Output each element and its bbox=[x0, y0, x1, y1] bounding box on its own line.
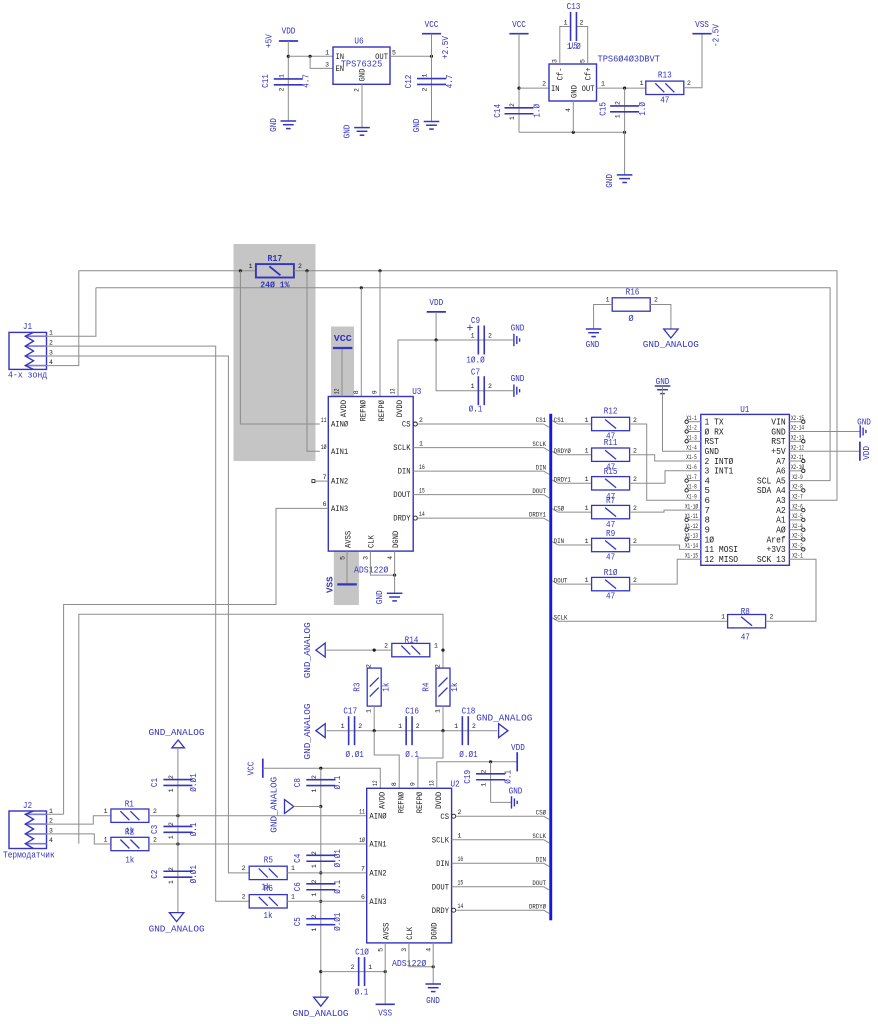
svg-text:CSØ: CSØ bbox=[554, 504, 564, 512]
wire U2 DOUT to bus, net DOUT bbox=[452, 886, 544, 888]
pin X2-8 of U1 bbox=[789, 489, 804, 491]
capacitor C2 0.01 bbox=[163, 870, 192, 872]
junction bbox=[623, 87, 626, 90]
svg-text:AVDD: AVDD bbox=[340, 400, 349, 417]
svg-text:CLK: CLK bbox=[406, 927, 415, 940]
ground GND_ANALOG at R16 bbox=[664, 329, 678, 338]
svg-text:X2-14: X2-14 bbox=[791, 425, 804, 432]
svg-text:DRDY1: DRDY1 bbox=[529, 511, 546, 518]
svg-text:GND_ANALOG: GND_ANALOG bbox=[149, 727, 205, 738]
wire U3 DIN to bus, net DIN bbox=[413, 470, 543, 472]
svg-text:GND: GND bbox=[412, 119, 422, 133]
svg-text:X1-15: X1-15 bbox=[685, 552, 698, 559]
resistor R11 47 bbox=[592, 448, 630, 461]
svg-text:R1Ø: R1Ø bbox=[604, 568, 618, 578]
svg-text:AINØ: AINØ bbox=[369, 812, 386, 821]
svg-text:X1-14: X1-14 bbox=[685, 543, 698, 550]
svg-text:R1: R1 bbox=[125, 800, 134, 810]
svg-text:1: 1 bbox=[325, 50, 329, 57]
svg-text:SCLK: SCLK bbox=[554, 614, 568, 621]
svg-text:2: 2 bbox=[311, 879, 318, 883]
svg-text:1: 1 bbox=[49, 808, 53, 815]
wire U2 SCLK to bus, net SCLK bbox=[452, 839, 544, 841]
svg-text:VIN: VIN bbox=[771, 418, 785, 428]
wire U2 DRDY to bus, net DRDY0 bbox=[452, 908, 456, 912]
svg-text:X2-11: X2-11 bbox=[791, 454, 804, 461]
svg-text:1: 1 bbox=[168, 835, 175, 839]
wire C17 node to U2 REFN0 bbox=[374, 731, 399, 789]
svg-text:SCK 13: SCK 13 bbox=[757, 555, 786, 565]
svg-text:Ø.1: Ø.1 bbox=[503, 770, 513, 784]
svg-text:8: 8 bbox=[391, 782, 398, 786]
svg-text:24Ø 1%: 24Ø 1% bbox=[260, 279, 290, 290]
IC U6 TPS76325 box bbox=[333, 47, 390, 84]
resistor R3 1k bbox=[367, 668, 381, 706]
svg-text:4: 4 bbox=[425, 948, 432, 952]
svg-text:C14: C14 bbox=[493, 104, 503, 118]
svg-text:R13: R13 bbox=[658, 71, 672, 81]
wire rail down to ground bbox=[624, 132, 626, 175]
junction bbox=[176, 842, 179, 845]
svg-text:1: 1 bbox=[585, 476, 589, 483]
svg-text:GND_ANALOG: GND_ANALOG bbox=[643, 339, 699, 350]
wire J1 pin1 to REFN0 net bbox=[47, 288, 96, 336]
svg-text:15: 15 bbox=[419, 487, 425, 494]
svg-text:X1-7: X1-7 bbox=[686, 474, 697, 481]
svg-text:VDD: VDD bbox=[862, 446, 872, 460]
pin X1-10 of U1 bbox=[685, 509, 700, 511]
svg-text:R11: R11 bbox=[604, 438, 618, 448]
pin X1-15 of U1 bbox=[685, 558, 700, 560]
svg-text:DRDYØ: DRDYØ bbox=[554, 447, 571, 455]
svg-text:GND: GND bbox=[375, 590, 385, 604]
svg-text:14: 14 bbox=[419, 511, 425, 518]
svg-text:GND_ANALOG: GND_ANALOG bbox=[149, 924, 205, 935]
svg-text:DIN: DIN bbox=[554, 538, 564, 545]
svg-text:2: 2 bbox=[633, 505, 637, 512]
wire C8 node down through C4 C6 C5 bbox=[320, 807, 322, 998]
wire U3 DRDY to bus, net DRDY1 bbox=[413, 516, 417, 520]
svg-text:3: 3 bbox=[49, 827, 53, 834]
pin X1-6 of U1 bbox=[685, 470, 700, 472]
bus (SPI signals) bbox=[549, 414, 552, 921]
wire J1 pin2 down to R6 bbox=[47, 346, 250, 901]
svg-text:1: 1 bbox=[104, 836, 108, 843]
wire C5 node to C10 to AVSS bbox=[321, 971, 385, 973]
capacitor C19 0.1 bbox=[490, 762, 492, 803]
svg-text:DRDY: DRDY bbox=[432, 907, 449, 916]
svg-text:OUT: OUT bbox=[375, 53, 388, 62]
ground at R16 bbox=[586, 328, 602, 330]
svg-text:Ø.1: Ø.1 bbox=[355, 988, 369, 998]
svg-text:2: 2 bbox=[242, 894, 246, 901]
power symbol VDD above U3 bbox=[427, 311, 446, 313]
wire U3 DOUT to bus, net DOUT bbox=[413, 494, 543, 496]
capacitor C1 0.01 bbox=[163, 779, 192, 781]
svg-text:Cf+: Cf+ bbox=[585, 67, 594, 80]
wire U3 CS to bus, net CS1 bbox=[413, 422, 417, 426]
svg-text:14: 14 bbox=[458, 903, 464, 910]
wire J2 pin1 stub bbox=[47, 813, 64, 815]
svg-text:GND: GND bbox=[426, 996, 440, 1006]
wire U1 +5V pin X2-12 to VDD bbox=[805, 450, 860, 452]
svg-text:1: 1 bbox=[606, 297, 610, 304]
svg-text:2: 2 bbox=[435, 664, 442, 668]
svg-text:1Ø: 1Ø bbox=[321, 443, 327, 451]
svg-text:Ø.1: Ø.1 bbox=[469, 405, 483, 415]
svg-text:C5: C5 bbox=[293, 917, 303, 926]
svg-text:11 MOSI: 11 MOSI bbox=[705, 545, 739, 555]
power symbol VDD above U2 bbox=[516, 752, 518, 771]
svg-text:Ø.1: Ø.1 bbox=[333, 776, 343, 790]
svg-text:4: 4 bbox=[49, 359, 53, 366]
ground GND_ANALOG left of C8 bbox=[285, 800, 294, 814]
svg-text:SCL A5: SCL A5 bbox=[757, 476, 786, 486]
svg-text:C12: C12 bbox=[404, 75, 414, 89]
svg-text:X2-7: X2-7 bbox=[792, 494, 803, 501]
junction bbox=[384, 970, 387, 973]
wire R17 pin2 onward to U1 A3 bbox=[294, 271, 837, 501]
power symbol VCC above U3 bbox=[333, 347, 353, 349]
capacitor C11 4.7 bbox=[274, 78, 303, 80]
svg-text:GND: GND bbox=[359, 68, 368, 81]
resistor R10 47 bbox=[592, 577, 630, 590]
svg-text:Ø.1: Ø.1 bbox=[405, 750, 419, 760]
svg-text:1: 1 bbox=[368, 964, 372, 971]
resistor R1 1k bbox=[111, 809, 149, 822]
wire U2 DIN to bus, net DIN bbox=[452, 862, 544, 864]
svg-text:2: 2 bbox=[472, 723, 476, 730]
pin stub U3 AIN2 (unconnected) bbox=[315, 480, 328, 482]
svg-text:47: 47 bbox=[606, 592, 615, 602]
svg-text:R5: R5 bbox=[264, 856, 273, 866]
wire U6 OUT to VCC bbox=[390, 55, 432, 57]
svg-text:GND: GND bbox=[705, 447, 719, 457]
svg-text:Ø.Ø1: Ø.Ø1 bbox=[459, 750, 477, 760]
resistor R13 47 bbox=[646, 81, 684, 94]
svg-text:AIN3: AIN3 bbox=[331, 505, 348, 514]
wire R8 to U1 X2-1 (SCK) bbox=[766, 559, 816, 621]
svg-text:4: 4 bbox=[705, 476, 710, 486]
IC U3 ADS1220 box bbox=[328, 397, 413, 552]
wire U3 AIN3 to J2 pin1 bbox=[64, 508, 329, 814]
wire U5 pin4 GND bbox=[572, 101, 574, 132]
ground above U1 bbox=[655, 385, 671, 387]
svg-text:6: 6 bbox=[323, 501, 327, 508]
svg-text:REFNØ: REFNØ bbox=[360, 400, 369, 422]
svg-text:1: 1 bbox=[471, 383, 475, 390]
svg-text:C16: C16 bbox=[405, 707, 419, 717]
junction bbox=[176, 814, 179, 817]
svg-text:1: 1 bbox=[168, 788, 175, 792]
svg-text:GND_ANALOG: GND_ANALOG bbox=[476, 713, 532, 724]
svg-text:2: 2 bbox=[351, 964, 355, 971]
svg-text:5: 5 bbox=[580, 59, 587, 63]
svg-text:1: 1 bbox=[585, 448, 589, 455]
capacitor C17 0.01 bbox=[348, 716, 350, 745]
svg-text:VSS: VSS bbox=[695, 20, 709, 30]
svg-text:CS: CS bbox=[402, 421, 411, 430]
svg-text:REFPØ: REFPØ bbox=[378, 400, 387, 422]
wire R2 pin2 to U2 AIN1 bbox=[149, 843, 367, 845]
svg-text:2: 2 bbox=[384, 643, 388, 650]
svg-text:R14: R14 bbox=[405, 636, 419, 646]
ground for U6 bbox=[354, 127, 370, 129]
junction REFN0 bbox=[360, 286, 363, 289]
ground right of U1 bbox=[859, 425, 861, 437]
svg-text:GND: GND bbox=[509, 787, 523, 797]
svg-text:DVDD: DVDD bbox=[396, 400, 405, 417]
svg-text:GND: GND bbox=[571, 85, 580, 98]
junction bbox=[239, 269, 242, 272]
svg-text:9: 9 bbox=[372, 390, 379, 394]
svg-text:A2: A2 bbox=[776, 506, 786, 516]
svg-text:X1-6: X1-6 bbox=[686, 464, 697, 471]
svg-text:A6: A6 bbox=[776, 467, 786, 477]
svg-text:DRDYØ: DRDYØ bbox=[529, 902, 546, 910]
junction bbox=[305, 269, 308, 272]
pin X1-12 of U1 bbox=[685, 529, 700, 531]
svg-text:J1: J1 bbox=[23, 322, 32, 332]
wire C18 node to U2 REFP0 bbox=[418, 731, 443, 789]
ground for C11 bbox=[281, 120, 297, 122]
svg-text:2: 2 bbox=[49, 818, 53, 825]
wire U2 DGND down bbox=[432, 943, 434, 984]
svg-text:2: 2 bbox=[633, 538, 637, 545]
svg-text:X2-5: X2-5 bbox=[792, 513, 803, 520]
junction bbox=[517, 87, 520, 90]
svg-text:IN: IN bbox=[551, 85, 560, 94]
svg-text:1.Ø: 1.Ø bbox=[638, 101, 648, 115]
wire R15 to U1 X1-6 bbox=[630, 471, 686, 484]
svg-text:X1-1Ø: X1-1Ø bbox=[685, 503, 698, 510]
svg-text:2: 2 bbox=[311, 851, 318, 855]
svg-text:1 TX: 1 TX bbox=[705, 418, 725, 428]
power symbol VDD right of U1 bbox=[859, 442, 861, 461]
svg-text:C8: C8 bbox=[293, 778, 303, 787]
svg-text:X1-5: X1-5 bbox=[686, 454, 697, 461]
svg-text:Ø.1: Ø.1 bbox=[189, 823, 199, 837]
IC U2 ADS1220 box bbox=[367, 788, 452, 943]
ground right of C19 bbox=[511, 796, 513, 808]
power symbol VSS below U3 bbox=[337, 583, 357, 585]
svg-text:1: 1 bbox=[49, 330, 53, 337]
svg-text:Ø RX: Ø RX bbox=[705, 427, 725, 437]
resistor R9 47 bbox=[592, 538, 630, 551]
svg-text:ADS122Ø: ADS122Ø bbox=[354, 565, 389, 576]
svg-text:2: 2 bbox=[770, 614, 774, 621]
svg-text:C3: C3 bbox=[150, 825, 160, 834]
pin X2-2 of U1 bbox=[789, 548, 804, 550]
wire R7 to U1 X1-10 bbox=[630, 510, 686, 512]
svg-text:2: 2 bbox=[168, 775, 175, 779]
svg-text:R17: R17 bbox=[268, 253, 283, 264]
wire bus to R12, net CS1 bbox=[552, 421, 558, 424]
power symbol VDD (+5V) bbox=[279, 40, 298, 42]
wire U3 CLK to DGND bbox=[370, 551, 394, 575]
svg-text:2: 2 bbox=[419, 417, 423, 424]
pin X1-2 of U1 bbox=[685, 431, 700, 433]
junction REFP0 bbox=[378, 269, 381, 272]
svg-text:+5V: +5V bbox=[771, 447, 786, 457]
svg-text:7: 7 bbox=[361, 866, 365, 873]
svg-text:DOUT: DOUT bbox=[554, 577, 568, 584]
svg-text:X1-8: X1-8 bbox=[686, 484, 697, 491]
svg-text:DOUT: DOUT bbox=[532, 880, 546, 887]
svg-text:DIN: DIN bbox=[398, 468, 411, 477]
wire bus to R7, net CS0 bbox=[552, 509, 558, 512]
wire R1 pin2 to U2 AIN0 bbox=[149, 815, 367, 817]
svg-text:Ø: Ø bbox=[628, 314, 634, 324]
svg-text:AVSS: AVSS bbox=[383, 922, 392, 939]
svg-text:1k: 1k bbox=[125, 856, 134, 866]
ground right of C7 bbox=[513, 385, 515, 397]
svg-text:SCLK: SCLK bbox=[393, 444, 410, 453]
svg-text:8: 8 bbox=[353, 390, 360, 394]
wire R5 pin1 to U2 AIN2 bbox=[287, 872, 367, 874]
junction bbox=[441, 729, 444, 732]
svg-text:1: 1 bbox=[585, 538, 589, 545]
capacitor C18 0.01 bbox=[461, 716, 463, 745]
svg-text:1: 1 bbox=[585, 505, 589, 512]
wire EN branch bbox=[310, 56, 333, 68]
wire U2 CS to bus, net CS0 bbox=[452, 814, 456, 818]
svg-text:1: 1 bbox=[279, 74, 286, 78]
svg-text:1: 1 bbox=[291, 865, 295, 872]
pin X1-9 of U1 bbox=[685, 499, 700, 501]
svg-text:1: 1 bbox=[311, 893, 318, 897]
resistor R15 47 bbox=[592, 477, 630, 490]
svg-text:RST: RST bbox=[705, 437, 720, 447]
svg-text:2: 2 bbox=[416, 723, 420, 730]
svg-text:DIN: DIN bbox=[436, 860, 449, 869]
svg-text:X2-15: X2-15 bbox=[791, 415, 804, 422]
svg-text:VDD: VDD bbox=[429, 298, 443, 308]
junction bbox=[319, 805, 322, 808]
svg-text:C1: C1 bbox=[150, 778, 160, 787]
svg-text:1Ø.Ø: 1Ø.Ø bbox=[466, 356, 485, 366]
svg-text:DOUT: DOUT bbox=[432, 883, 449, 892]
resistor R14 bbox=[392, 643, 430, 656]
svg-text:R15: R15 bbox=[604, 467, 618, 477]
ground GND_ANALOG above C1 bbox=[172, 740, 185, 748]
svg-text:4-х зонд: 4-х зонд bbox=[8, 370, 48, 381]
svg-text:1Ø: 1Ø bbox=[359, 836, 365, 844]
pin X1-1 of U1 bbox=[685, 421, 700, 423]
junction R3 top bbox=[373, 649, 376, 652]
svg-text:U1: U1 bbox=[740, 405, 749, 415]
svg-text:GND: GND bbox=[343, 125, 353, 139]
svg-text:CS1: CS1 bbox=[536, 417, 546, 424]
pin X2-5 of U1 bbox=[789, 519, 804, 521]
svg-text:12: 12 bbox=[334, 388, 341, 394]
svg-text:R7: R7 bbox=[606, 496, 615, 506]
wire bus to R9, net DIN bbox=[552, 542, 558, 545]
svg-text:U6: U6 bbox=[354, 37, 363, 47]
capacitor C3 0.1 bbox=[163, 825, 192, 827]
resistor R5 1k bbox=[249, 866, 287, 879]
svg-text:1: 1 bbox=[615, 114, 622, 118]
resistor R12 47 bbox=[592, 417, 630, 430]
svg-text:U2: U2 bbox=[451, 780, 460, 790]
svg-text:3: 3 bbox=[325, 62, 329, 69]
svg-text:1: 1 bbox=[435, 709, 442, 713]
svg-text:C1Ø: C1Ø bbox=[355, 948, 369, 958]
junction AIN2 node bbox=[319, 871, 322, 874]
wire VCC to U2 AVDD bbox=[263, 768, 381, 788]
wire bus to R8, net SCLK bbox=[552, 618, 558, 621]
svg-text:GND: GND bbox=[605, 174, 615, 188]
svg-text:C9: C9 bbox=[471, 316, 480, 326]
svg-text:1: 1 bbox=[585, 577, 589, 584]
wire bus to R11, net DRDY0 bbox=[552, 451, 558, 454]
svg-text:VCC: VCC bbox=[512, 20, 526, 30]
svg-text:AIN2: AIN2 bbox=[369, 870, 386, 879]
connector J2 (thermal sensor) bbox=[9, 811, 47, 849]
svg-text:Aref: Aref bbox=[767, 535, 786, 545]
pin X2-7 of U1 bbox=[789, 499, 804, 501]
svg-text:13: 13 bbox=[428, 780, 435, 786]
wire J1 pin4 to R17 net bbox=[47, 271, 79, 366]
svg-text:GND: GND bbox=[586, 340, 600, 350]
svg-text:CS1: CS1 bbox=[554, 417, 564, 424]
svg-text:1: 1 bbox=[471, 333, 475, 340]
ground GND_ANALOG below C5 bbox=[314, 997, 328, 1006]
svg-text:X2-6: X2-6 bbox=[792, 503, 803, 510]
pin X1-14 of U1 bbox=[685, 548, 700, 550]
pin X2-11 of U1 bbox=[789, 460, 804, 462]
svg-text:3 INT1: 3 INT1 bbox=[705, 467, 734, 477]
svg-text:C11: C11 bbox=[261, 74, 271, 88]
svg-text:1: 1 bbox=[458, 833, 462, 840]
pin X2-6 of U1 bbox=[789, 509, 804, 511]
svg-text:9: 9 bbox=[705, 526, 710, 536]
svg-text:VSS: VSS bbox=[325, 576, 336, 593]
svg-text:2: 2 bbox=[298, 263, 302, 270]
svg-text:2: 2 bbox=[633, 417, 637, 424]
ground GND_ANALOG below C2 bbox=[169, 913, 183, 922]
svg-text:Ø.Ø1: Ø.Ø1 bbox=[346, 750, 364, 760]
svg-text:4.7: 4.7 bbox=[445, 75, 455, 89]
ground for U5 rail bbox=[617, 174, 633, 176]
svg-text:C18: C18 bbox=[462, 707, 476, 717]
wire J2 pin2 to R1 bbox=[47, 816, 111, 824]
svg-text:C15: C15 bbox=[599, 102, 609, 116]
junction bbox=[373, 729, 376, 732]
svg-text:5: 5 bbox=[392, 50, 396, 57]
wire U2 DVDD to VDD bbox=[437, 762, 517, 789]
svg-text:VDD: VDD bbox=[282, 27, 296, 37]
svg-text:2: 2 bbox=[366, 664, 373, 668]
wire to U6 IN bbox=[288, 55, 333, 57]
wire U5 pin5 to C13 bbox=[576, 27, 587, 65]
wire R4 pin1 down bbox=[442, 706, 444, 731]
svg-text:47: 47 bbox=[606, 553, 615, 563]
pin X2-9 of U1 bbox=[789, 480, 804, 482]
svg-text:CLK: CLK bbox=[368, 535, 377, 548]
capacitor C4 0.01 bbox=[306, 854, 335, 856]
wire J1 pin3 down to R5 bbox=[47, 356, 250, 873]
svg-text:5: 5 bbox=[339, 556, 346, 560]
wire U5 OUT to R13 bbox=[597, 87, 647, 89]
pin X2-4 of U1 bbox=[789, 529, 804, 531]
svg-text:1: 1 bbox=[721, 614, 725, 621]
svg-text:TPS6Ø4Ø3DBVT: TPS6Ø4Ø3DBVT bbox=[598, 54, 661, 65]
wire R16 pin1 to GND bbox=[594, 305, 613, 330]
power symbol VSS below U2 bbox=[376, 1003, 395, 1005]
svg-text:X1-13: X1-13 bbox=[685, 533, 698, 540]
svg-text:CS: CS bbox=[440, 813, 449, 822]
